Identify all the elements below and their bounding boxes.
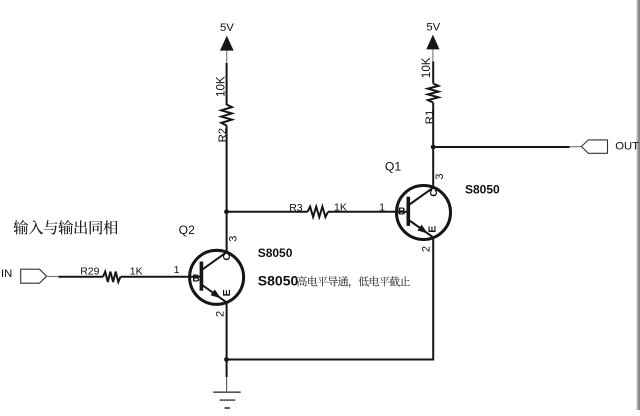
svg-text:E: E — [427, 226, 439, 233]
transistor Q2 emitter arrow (NPN) — [211, 289, 221, 298]
transistor Q1 emitter stroke — [410, 221, 434, 238]
svg-text:B: B — [192, 273, 200, 285]
svg-text:B: B — [398, 206, 406, 218]
wire R2 to node A — [226, 126, 228, 212]
wire node C to OUT — [433, 146, 569, 148]
svg-text:Q1: Q1 — [385, 159, 401, 173]
wire IN to R29 — [59, 276, 104, 278]
svg-text:C: C — [428, 189, 440, 197]
svg-text:E: E — [221, 289, 233, 296]
wire node B to ground — [226, 360, 228, 378]
svg-text:R3: R3 — [289, 202, 303, 214]
ground symbol — [213, 392, 241, 408]
port IN connector flag — [21, 269, 47, 283]
svg-text:S8050: S8050 — [258, 273, 299, 289]
wire Q2 emitter down — [226, 302, 228, 360]
resistor R1 zigzag — [428, 84, 439, 103]
svg-text:S8050: S8050 — [465, 183, 500, 197]
wire 5V to R2 — [226, 63, 228, 105]
node A junction dot — [224, 209, 229, 214]
svg-text:R29: R29 — [80, 266, 99, 278]
svg-text:1: 1 — [174, 264, 180, 276]
resistor R29 zigzag — [103, 272, 121, 282]
svg-text:S8050: S8050 — [258, 246, 293, 260]
node B ground junction dot — [224, 357, 229, 362]
wire node A down to Q2 collector — [226, 212, 228, 253]
port OUT connector flag — [581, 140, 607, 153]
transistor Q1 base bar — [406, 197, 410, 226]
svg-text:1K: 1K — [130, 265, 143, 277]
transistor Q1 collector stroke — [410, 187, 434, 204]
power arrow symbol (right 5V) — [426, 35, 439, 50]
transistor Q2 base bar — [200, 262, 204, 291]
transistor Q2 collector stroke — [203, 252, 227, 269]
resistor R2 zigzag — [221, 105, 232, 126]
power arrow symbol (left 5V) — [220, 36, 234, 51]
annotation: title 输入与输出同相 — [13, 220, 28, 234]
svg-text:10K: 10K — [214, 76, 227, 97]
svg-text:C: C — [221, 253, 233, 261]
transistor Q2 emitter stroke — [203, 285, 227, 302]
svg-text:OUT: OUT — [615, 140, 639, 152]
resistor R3 zigzag — [308, 207, 329, 217]
node C junction dot — [431, 145, 436, 150]
transistor Q1 emitter arrow (NPN) — [417, 225, 427, 234]
page border right edge shadow — [636, 0, 640, 410]
svg-text:5V: 5V — [426, 21, 440, 33]
svg-text:5V: 5V — [220, 22, 234, 34]
transistor Q2 body circle — [190, 250, 244, 304]
transistor Q1 body circle — [397, 186, 451, 240]
svg-text:3: 3 — [434, 173, 446, 179]
wire ground rail to Q1 emitter — [227, 238, 434, 360]
wire node A to R3 — [227, 211, 308, 213]
svg-text:1: 1 — [379, 201, 385, 213]
svg-text:10K: 10K — [420, 57, 433, 78]
wire 5V to R1 — [432, 62, 434, 84]
wire R29 to Q2 base — [121, 276, 202, 278]
wire R1 to node C — [432, 103, 434, 148]
svg-text:3: 3 — [228, 236, 240, 242]
wire node C down to Q1 collector — [432, 147, 434, 188]
wire IN flag stub — [47, 275, 59, 277]
svg-text:IN: IN — [1, 268, 12, 280]
wire R3 to Q1 base — [328, 211, 409, 213]
svg-text:2: 2 — [215, 311, 227, 317]
svg-text:Q2: Q2 — [179, 223, 195, 237]
svg-text:2: 2 — [421, 246, 433, 252]
